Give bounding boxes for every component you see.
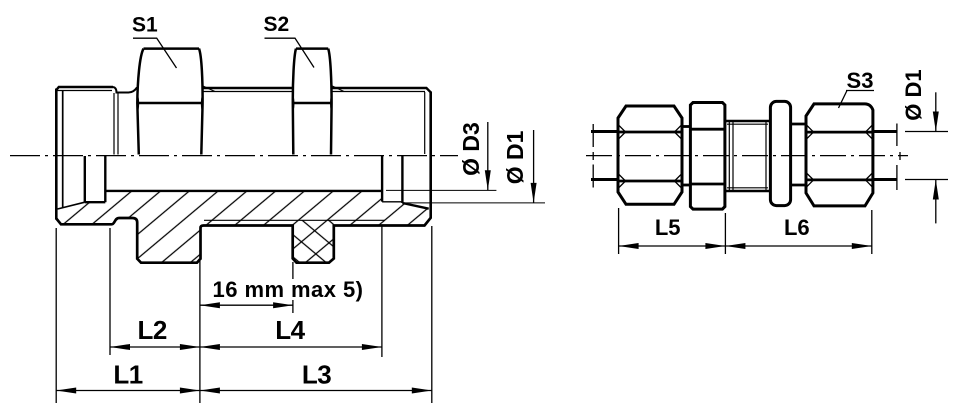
arrow line D3 [487, 122, 489, 190]
port bore wall [84, 156, 86, 202]
tube socket bottom [382, 201, 402, 203]
hex nut A outline [618, 106, 682, 204]
hex rear edge line [204, 219, 385, 221]
hex S1 corner lenses [137, 95, 139, 111]
svg-text:L4: L4 [275, 315, 305, 345]
leader line diameter D1 [403, 202, 545, 204]
svg-text:S3: S3 [847, 68, 874, 93]
stem thread root right of S2 [332, 91, 425, 93]
thread runout lines [728, 121, 730, 191]
through bore wall [105, 190, 382, 192]
threaded stem [725, 120, 771, 123]
hex S1 right transition chamfer [202, 86, 215, 92]
stem top edge between hexes [203, 87, 293, 89]
extension line L4 right [381, 226, 383, 357]
dimension L5 [619, 245, 726, 247]
svg-text:L6: L6 [784, 215, 810, 240]
port seat cone line [58, 202, 85, 209]
left stub tick marks [592, 124, 594, 147]
socket chamfer [402, 203, 428, 209]
port end chamfer line [62, 90, 64, 207]
tube socket right wall [401, 156, 403, 203]
hex S2 right transition chamfer [332, 86, 344, 92]
hex nut A face lines [618, 131, 682, 134]
svg-text:Ø D1: Ø D1 [901, 69, 926, 120]
neck between ring C and hex S3 [791, 123, 807, 126]
body bottom outline [56, 218, 430, 263]
port top edge [56, 87, 113, 90]
hex S3 outline [806, 104, 873, 206]
svg-text:16 mm max 5): 16 mm max 5) [213, 277, 364, 302]
extension line L2 left [109, 228, 111, 355]
hex S3 face lines [806, 131, 873, 134]
extension line L3 right [431, 226, 433, 403]
dimension L3 [200, 390, 432, 392]
port bore bottom [85, 201, 106, 203]
svg-text:L2: L2 [138, 315, 167, 345]
centerline right view [586, 155, 908, 157]
bulkhead locknut outline [690, 103, 725, 210]
port bore step [104, 156, 106, 202]
ring C outline [770, 101, 790, 205]
port thread runout lines [113, 93, 115, 155]
extension line center [199, 261, 201, 403]
dimension L6 [725, 245, 871, 247]
dimension D1 right view [905, 131, 948, 133]
stem thread root between hexes [203, 91, 293, 93]
svg-text:L3: L3 [302, 360, 331, 390]
leader line diameter D3 [386, 189, 496, 191]
right stub tick marks [896, 124, 898, 147]
right tube stub [873, 130, 897, 133]
stem top edge right of S2 [332, 88, 431, 92]
dimension L1 [56, 390, 200, 392]
right end chamfer line [424, 92, 426, 154]
locknut face lines [690, 128, 725, 131]
dimension L4 [200, 346, 382, 348]
tube socket left wall [381, 156, 383, 202]
centerline left view [10, 155, 458, 157]
collar between hex A and locknut [682, 125, 690, 128]
port undercut groove [113, 87, 137, 93]
cross hatch of locknut lower lobe (section) [293, 220, 334, 262]
dimension 16mm [200, 304, 293, 306]
extension line L5 left [618, 208, 620, 254]
section hatching of fitting body (left view) [56, 191, 430, 263]
dimension L2 [110, 346, 200, 348]
svg-text:L5: L5 [655, 215, 681, 240]
hex S2 corner lenses [293, 95, 295, 111]
extension line L1 left [55, 228, 57, 403]
left tube stub [591, 130, 619, 133]
svg-text:Ø D1: Ø D1 [502, 130, 528, 184]
svg-text:S2: S2 [264, 13, 290, 36]
extension line L5/L6 middle [724, 213, 726, 254]
hex S1 chamfer line [137, 102, 202, 104]
hex S3 corner arcs [807, 125, 873, 187]
svg-text:Ø D3: Ø D3 [458, 122, 484, 176]
hex nut A corner arcs [619, 125, 682, 188]
body right end face [429, 92, 432, 219]
port left end face [55, 89, 58, 220]
svg-text:L1: L1 [113, 360, 142, 390]
extension line L6 right [871, 210, 873, 254]
arrow line D1 [533, 130, 535, 203]
port thread root line [58, 90, 113, 92]
hex S1 outline [137, 49, 202, 155]
svg-text:S1: S1 [132, 14, 158, 37]
hex S2 outline [293, 49, 332, 155]
extension line 16mm right [292, 262, 294, 279]
hex S2 chamfer line [293, 102, 332, 104]
